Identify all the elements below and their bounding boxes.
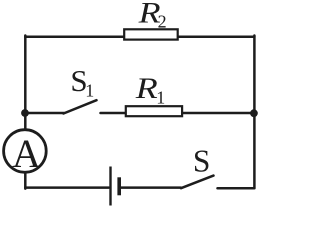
svg-text:2: 2 — [158, 12, 167, 32]
svg-text:S: S — [193, 143, 211, 178]
svg-text:1: 1 — [156, 88, 165, 108]
svg-text:1: 1 — [85, 80, 94, 100]
svg-text:A: A — [12, 131, 41, 176]
svg-text:R: R — [135, 72, 158, 105]
